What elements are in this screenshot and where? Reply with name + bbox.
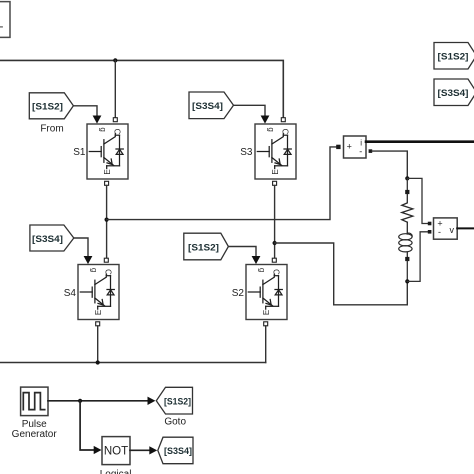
svg-text:[S3S4]: [S3S4] (192, 101, 223, 112)
wire: From tag to S1 gate (73, 106, 97, 115)
wire: NOT to goto S3S4 (130, 449, 149, 451)
wire: load top to voltage measurement + (407, 178, 428, 223)
node junction load bottom (405, 279, 409, 283)
svg-text:[S1S2]: [S1S2] (188, 242, 219, 253)
From tag [S3S4] (middle left) (30, 225, 74, 251)
port E of S4 (96, 322, 100, 326)
port + of current measurement (filled) (336, 145, 340, 149)
wire: left midpoint to current measurement input (107, 147, 337, 220)
wire: From tag to S3 gate (234, 105, 266, 115)
svg-text:[S1S2]: [S1S2] (164, 397, 191, 408)
svg-text:S3: S3 (240, 147, 253, 158)
wire: S2 emitter to bottom bus (265, 326, 267, 363)
svg-text:-: - (359, 146, 362, 156)
svg-text:Generator: Generator (12, 429, 58, 440)
svg-text:S4: S4 (64, 288, 77, 299)
node junction left midpoint (105, 218, 109, 222)
arrowhead into S2 gate (252, 256, 261, 264)
From tag [S1S2] (middle right) (184, 233, 229, 260)
svg-text:Goto: Goto (164, 417, 186, 428)
port bottom of RLC branch (405, 257, 409, 261)
node junction pulse branch (78, 399, 82, 403)
IGBT S1 (87, 124, 128, 179)
svg-text:[S3S4]: [S3S4] (438, 88, 469, 99)
node junction bottom bus at S4 (96, 360, 100, 364)
wire: From tag to S2 gate (228, 247, 256, 256)
port C of S3 (281, 118, 285, 122)
wire: From tag to S4 gate (74, 238, 88, 256)
voltage measurement block U_V (434, 218, 458, 239)
port - of voltage measurement (428, 230, 432, 234)
wire: top DC bus (0, 60, 283, 117)
node junction load top (405, 176, 409, 180)
port C of S2 (272, 258, 276, 262)
arrowhead into NOT (94, 446, 102, 454)
wire: current signal i to right edge (366, 140, 474, 143)
node junction top bus to S1 (113, 58, 117, 62)
svg-text:[S1S2]: [S1S2] (32, 102, 63, 113)
arrowhead into S1 gate (93, 116, 102, 124)
port - of current measurement (369, 149, 373, 153)
minus sign of cut source (0, 26, 2, 28)
wire: S4 emitter to bottom bus (97, 326, 99, 363)
Goto tag [S3S4] (158, 437, 193, 464)
wire: S1 emitter down to S4 collector (106, 186, 108, 259)
wire: pulse generator to goto S1S2 (48, 400, 148, 402)
svg-text:From: From (40, 124, 63, 135)
series RLC branch load (399, 178, 413, 281)
port top of RLC branch (405, 190, 409, 194)
svg-text:S1: S1 (73, 147, 86, 158)
wire: S3 emitter down to S2 collector (274, 186, 276, 259)
port E of S3 (273, 181, 277, 185)
node junction right midpoint (273, 241, 277, 245)
Goto tag [S1S2] (156, 387, 192, 414)
wire: load bottom to voltage measurement - (407, 232, 428, 282)
svg-text:NOT: NOT (104, 445, 128, 457)
wire: L to bottom port (406, 252, 408, 257)
wire: junction to load port (406, 178, 408, 190)
wire: port to bottom junction (406, 261, 408, 281)
IGBT S4 (78, 265, 119, 320)
svg-text:[S3S4]: [S3S4] (32, 234, 63, 245)
svg-text:-: - (438, 227, 441, 237)
resistor R (402, 194, 413, 222)
port + of voltage measurement (428, 222, 432, 226)
logical operator NOT block (102, 437, 130, 465)
svg-text:Logical: Logical (100, 469, 132, 474)
From tag [S3S4] (top middle) (189, 92, 234, 119)
From tag [S1S2] (top right, cut) (434, 43, 474, 70)
arrowhead into S4 gate (84, 256, 93, 264)
svg-text:[S3S4]: [S3S4] (164, 446, 192, 457)
svg-text:[S1S2]: [S1S2] (438, 52, 469, 63)
port E of S2 (264, 322, 268, 326)
wire: branch to S1 collector (114, 60, 116, 117)
wire: right midpoint to load bottom (275, 243, 408, 305)
DC source block (cut off at left edge) (0, 2, 10, 38)
arrowhead into goto S1S2 (148, 397, 156, 405)
pulse generator block (21, 387, 48, 416)
wire: voltage signal to right edge (457, 227, 474, 229)
current measurement block U_I (344, 136, 367, 158)
svg-text:v: v (450, 225, 455, 235)
port E of S1 (105, 181, 109, 185)
From tag [S1S2] (top left) (29, 93, 73, 119)
port C of S1 (113, 118, 117, 122)
inductor L (399, 233, 413, 252)
From tag [S3S4] (top right, cut) (434, 79, 474, 106)
arrowhead into goto S3S4 (149, 446, 157, 454)
wire: bottom DC bus (0, 362, 266, 364)
wire: current measurement to load top (372, 151, 407, 178)
arrowhead into S3 gate (261, 116, 270, 124)
wire: R to L (406, 222, 408, 234)
port C of S4 (104, 258, 108, 262)
IGBT S3 (255, 124, 296, 179)
svg-text:S2: S2 (232, 288, 245, 299)
wire: pulse branch down to NOT (80, 401, 94, 450)
IGBT S2 (246, 265, 287, 320)
svg-text:+: + (347, 142, 352, 152)
